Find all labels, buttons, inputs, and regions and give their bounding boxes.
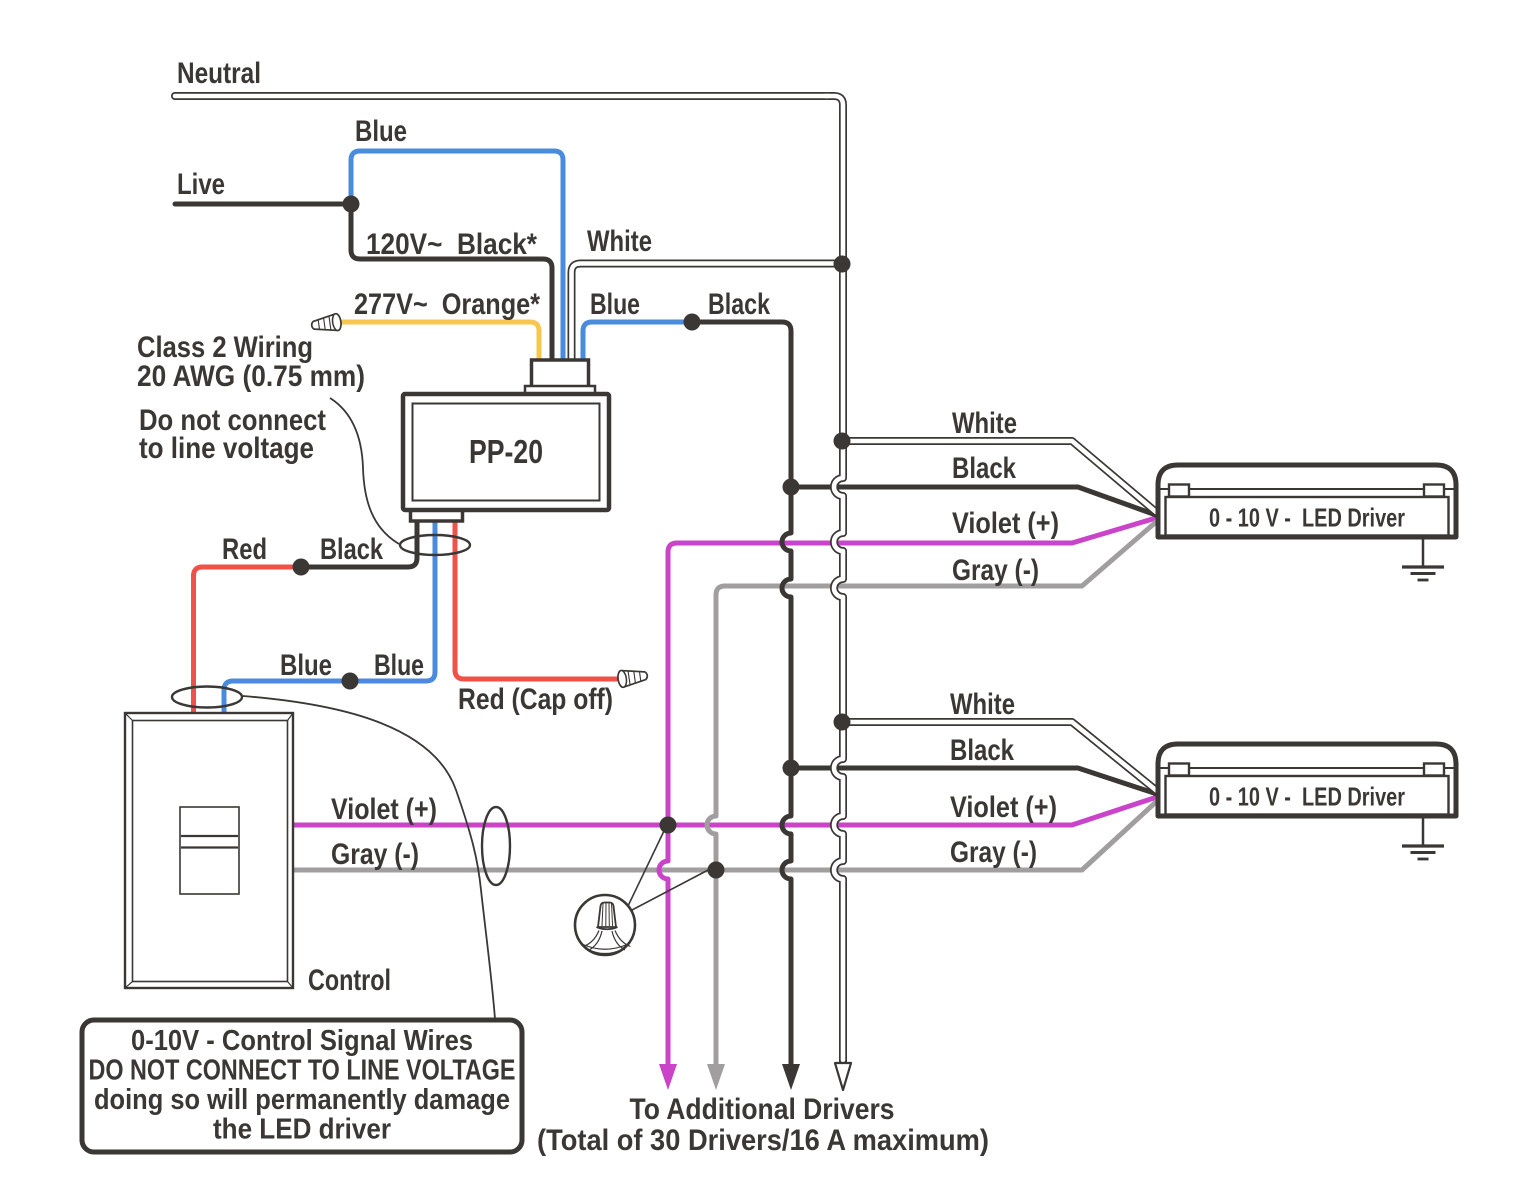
- warning box: [82, 1020, 522, 1152]
- wire: blue jumper from Live junction over to PP-20 top connector: [351, 151, 563, 362]
- LED driver 2 label panel: [1166, 776, 1449, 815]
- junction dot: white branch to driver 2: [834, 714, 851, 731]
- wire: black switched-live trunk from Blue/Black junction down to additional drivers with hops: [692, 322, 791, 1068]
- junction dot: black branch to driver 1: [783, 479, 800, 496]
- svg-text:Red: Red: [222, 533, 267, 566]
- svg-text:Black: Black: [708, 288, 770, 321]
- PP-20 inner panel: [413, 404, 600, 501]
- junction dot: black branch to driver 2: [783, 760, 800, 777]
- loop ellipse at control box top: [172, 687, 242, 708]
- svg-text:the LED driver: the LED driver: [213, 1114, 391, 1146]
- wire nut icon inside circle: [583, 903, 631, 954]
- control box switch paddle: [180, 807, 239, 894]
- svg-text:PP-20: PP-20: [469, 433, 543, 470]
- svg-text:Neutral: Neutral: [177, 57, 261, 90]
- svg-text:Control: Control: [308, 964, 391, 997]
- svg-text:Violet (+): Violet (+): [331, 793, 437, 826]
- svg-text:White: White: [950, 688, 1015, 721]
- ground symbol driver 1: [1402, 540, 1444, 581]
- junction dot: Blue/Blue junction: [342, 673, 359, 690]
- junction dot: Blue/Black junction: [684, 314, 701, 331]
- arrow: black to additional drivers: [782, 1064, 800, 1090]
- svg-text:doing so will permanently dama: doing so will permanently damage: [94, 1084, 510, 1116]
- callout line circle to violet junction: [628, 831, 664, 906]
- svg-text:277V~ Orange*: 277V~ Orange*: [354, 288, 540, 321]
- wire: violet (+) control run from control box to LED driver 2: [294, 797, 1157, 825]
- arrow: gray to additional drivers: [707, 1064, 725, 1090]
- control box inner plate: [133, 721, 288, 982]
- LED driver 1 right terminal: [1424, 485, 1444, 497]
- svg-text:120V~ Black*: 120V~ Black*: [366, 228, 537, 261]
- loop ellipse around PP-20 low-voltage leads: [400, 535, 470, 555]
- svg-text:0 - 10 V - LED Driver: 0 - 10 V - LED Driver: [1209, 503, 1405, 533]
- wire: red control lead from control box to Red/Black junction: [194, 567, 302, 714]
- LED driver 1 label panel: [1166, 497, 1449, 536]
- wire: gray (-) drop to additional drivers: [714, 870, 719, 1068]
- PP-20 bottom connector: [411, 506, 463, 521]
- junction dot: violet branch junction: [660, 817, 677, 834]
- svg-text:To Additional Drivers: To Additional Drivers: [630, 1093, 895, 1126]
- callout line from control loop down to warning box: [243, 696, 495, 1019]
- control box wall plate: [125, 713, 293, 988]
- LED driver 2 left terminal: [1169, 764, 1189, 776]
- svg-text:Black: Black: [950, 734, 1014, 767]
- wire: white branch from neutral to PP-20 top (outline): [572, 264, 841, 363]
- svg-text:Gray (-): Gray (-): [331, 838, 419, 871]
- junction dot: gray branch junction: [708, 862, 725, 879]
- svg-text:Violet (+): Violet (+): [952, 507, 1059, 540]
- svg-text:20 AWG (0.75 mm): 20 AWG (0.75 mm): [137, 360, 365, 393]
- svg-text:White: White: [952, 407, 1017, 440]
- PP-20 top connector flange: [525, 386, 595, 396]
- svg-text:Blue: Blue: [374, 649, 424, 682]
- LED driver 1 housing: [1158, 465, 1456, 537]
- svg-text:Blue: Blue: [355, 115, 407, 148]
- svg-text:Gray (-): Gray (-): [950, 836, 1037, 869]
- wire: blue control lead from control box up to PP-20 bottom connector: [224, 521, 435, 714]
- control box bevel corners: [125, 713, 293, 988]
- ground symbol driver 2: [1402, 819, 1444, 860]
- wire: white cores overlay: [175, 94, 828, 99]
- LED driver 1 left terminal: [1169, 485, 1189, 497]
- junction dot: white branch to driver 1: [834, 433, 851, 450]
- wire nut on 277V orange lead: [311, 313, 342, 334]
- svg-text:Blue: Blue: [590, 288, 640, 321]
- svg-text:White: White: [587, 225, 652, 258]
- wire: violet (+) branch up to LED driver 1: [668, 518, 1156, 825]
- wire: white neutral trunk (outline) from top left, down right side with hops: [175, 92, 828, 100]
- svg-text:Blue: Blue: [280, 649, 332, 682]
- LED driver 2 right terminal: [1424, 764, 1444, 776]
- wire: white branch to LED driver 1 (outline): [842, 441, 1156, 512]
- wire: red capped lead from PP-20 bottom connector to wire nut: [455, 521, 617, 679]
- switch paddle split lines: [181, 836, 238, 848]
- svg-text:(Total of 30 Drivers/16 A maxi: (Total of 30 Drivers/16 A maximum): [537, 1124, 989, 1157]
- wire: black lead from PP-20 bottom connector to Red/Black junction: [301, 521, 417, 567]
- svg-text:DO NOT CONNECT TO LINE VOLTAGE: DO NOT CONNECT TO LINE VOLTAGE: [89, 1055, 516, 1087]
- PP-20 top connector: [532, 360, 589, 388]
- wire nut on red capped lead: [617, 667, 648, 688]
- svg-text:0-10V - Control Signal Wires: 0-10V - Control Signal Wires: [131, 1025, 473, 1057]
- wire: black branch to LED driver 1: [791, 487, 1156, 515]
- junction dot: Live/blue junction: [343, 196, 360, 213]
- wire: blue lead PP-20 top to Blue/Black junction: [583, 322, 692, 362]
- svg-text:Violet (+): Violet (+): [950, 791, 1057, 824]
- power pack PP-20 box: [403, 394, 609, 510]
- junction dot: white branch on neutral trunk: [834, 256, 851, 273]
- svg-text:to line voltage: to line voltage: [139, 432, 314, 465]
- callout line circle to gray junction: [632, 869, 710, 910]
- svg-text:Live: Live: [177, 168, 225, 201]
- LED driver 2 housing: [1158, 744, 1456, 816]
- wire: gray (-) branch up to LED driver 1 (hop over violet run): [707, 522, 1156, 870]
- arrow: white neutral to additional drivers (hollow): [835, 1063, 851, 1090]
- wire: Live black lead with 120V black lead down into PP-20: [175, 204, 552, 362]
- wire: white branch to LED driver 2 (outline): [842, 722, 1157, 791]
- svg-text:Black: Black: [320, 533, 383, 566]
- svg-text:0 - 10 V - LED Driver: 0 - 10 V - LED Driver: [1209, 782, 1405, 812]
- wire: violet (+) drop to additional drivers (hop over gray run): [659, 825, 668, 1068]
- loop ellipse on control signal wires: [482, 807, 510, 885]
- arrow: violet to additional drivers: [659, 1064, 677, 1090]
- wire: gray (-) control run from control box to LED driver 2: [294, 801, 1157, 870]
- wire: black branch to LED driver 2: [791, 768, 1157, 794]
- svg-text:Gray (-): Gray (-): [952, 554, 1039, 587]
- callout line from Class 2 note to PP-20 leads: [330, 398, 399, 544]
- wire: orange 277V lead from wire nut to PP-20 top connector: [341, 322, 539, 362]
- svg-text:Red (Cap off): Red (Cap off): [458, 683, 613, 716]
- LED driver 2 top seam: [1160, 767, 1454, 769]
- wire nut detail circle: [575, 895, 635, 955]
- svg-text:Black: Black: [952, 452, 1016, 485]
- LED driver 1 top seam: [1160, 488, 1454, 490]
- junction dot: Red/Black junction: [293, 559, 310, 576]
